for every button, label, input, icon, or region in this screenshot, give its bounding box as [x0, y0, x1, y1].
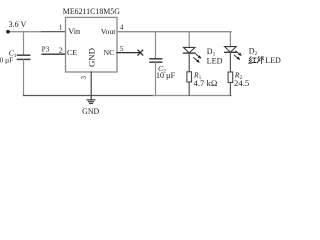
svg-text:2: 2: [59, 45, 63, 54]
svg-text:GND: GND: [87, 48, 97, 67]
svg-text:10 µF: 10 µF: [156, 71, 176, 80]
svg-text:5: 5: [120, 44, 124, 53]
svg-text:P3: P3: [42, 45, 50, 54]
svg-text:3.6 V: 3.6 V: [9, 20, 27, 29]
svg-text:Vout: Vout: [101, 27, 116, 36]
svg-text:1: 1: [59, 24, 63, 32]
svg-text:4: 4: [120, 23, 124, 31]
svg-text:CE: CE: [67, 48, 77, 57]
svg-text:3: 3: [80, 75, 88, 79]
svg-text:LED: LED: [265, 56, 281, 65]
svg-text:4.7 kΩ: 4.7 kΩ: [194, 78, 218, 88]
svg-text:24.5: 24.5: [234, 78, 249, 88]
svg-text:Vin: Vin: [68, 27, 80, 36]
svg-text:0 µF: 0 µF: [0, 57, 13, 65]
svg-text:LED: LED: [207, 56, 223, 65]
svg-text:ME6211C18M5G: ME6211C18M5G: [63, 7, 120, 16]
svg-text:NC: NC: [104, 48, 115, 57]
svg-text:GND: GND: [82, 107, 99, 116]
